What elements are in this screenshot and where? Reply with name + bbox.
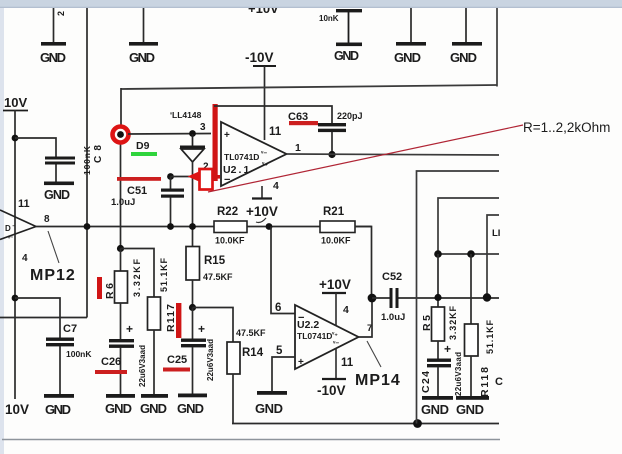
red annotation: vertical bar at U2.1 input [213, 104, 218, 181]
svg-text:TL0741D: TL0741D [224, 152, 259, 162]
capacitor 10nK to ground [336, 9, 362, 12]
ground (C24) [422, 396, 453, 400]
wire: C52 output to right [399, 297, 500, 299]
node R5 top [434, 250, 442, 258]
svg-text:100nK: 100nK [66, 349, 92, 359]
ground (U2.2 pin 5) [257, 391, 287, 395]
node at diode top [189, 130, 196, 137]
svg-text:U2.2: U2.2 [297, 319, 319, 331]
svg-text:1.0uJ: 1.0uJ [381, 312, 405, 323]
ground (top left 1) [41, 42, 66, 46]
wire: node to diode / U2.1 pin 3 [128, 133, 211, 136]
svg-text:11: 11 [269, 126, 282, 138]
node bus / pin6 branch [266, 223, 273, 230]
svg-text:GND: GND [140, 401, 167, 416]
svg-text:C: C [495, 376, 503, 388]
wire: right box middle [438, 198, 499, 254]
wire: node down to R6/R117 branch [120, 143, 122, 249]
red annotation: callout line [208, 125, 523, 192]
svg-text:GND: GND [450, 50, 477, 65]
op-amp U2.1 [221, 122, 287, 186]
node C52 net / R5 [434, 294, 441, 301]
node feedback / right box [413, 419, 422, 428]
window title bar [0, 0, 622, 8]
svg-text:TL0741D: TL0741D [297, 331, 332, 341]
svg-text:47.5KF: 47.5KF [236, 328, 266, 338]
svg-text:22u6V3aad: 22u6V3aad [454, 352, 463, 396]
wire: big box right edge [496, 8, 498, 87]
wire: R21 to output node [355, 227, 372, 299]
resistor R117 [148, 297, 161, 330]
ground (C26) [106, 394, 135, 398]
svg-text:ᵛ−: ᵛ− [332, 340, 339, 347]
svg-text:10nK: 10nK [319, 14, 339, 23]
wire: left corner line [0, 317, 87, 319]
wire: main signal bus MP12 to R21 [36, 226, 372, 228]
svg-text:22u6V3aad: 22u6V3aad [206, 339, 215, 381]
red highlight under C26 [95, 370, 127, 374]
svg-text:ᵛ−: ᵛ− [260, 150, 267, 157]
wire: R117 to ground [153, 330, 155, 394]
svg-text:10V: 10V [4, 95, 27, 110]
-10V supply (U2.2 pin 11) [322, 378, 346, 380]
svg-text:4: 4 [343, 304, 349, 316]
resistor R6 [120, 249, 122, 272]
ground (100nK) [44, 182, 74, 186]
ground (C7) [44, 394, 74, 398]
wire: corner down to highlighted node [120, 88, 122, 127]
diode D9 (LL4148) [192, 134, 194, 146]
wire: vertical into GND (top 5) [465, 8, 467, 42]
svg-text:R14: R14 [242, 347, 264, 359]
node C52 net / inner box [483, 293, 491, 301]
window left border [0, 8, 4, 454]
node at C8 line [84, 223, 91, 230]
resistor R15 [186, 247, 200, 281]
svg-text:4: 4 [22, 253, 28, 264]
svg-text:LI: LI [492, 228, 500, 239]
wire: long horizontal bus [121, 85, 497, 89]
wire: right box inner [487, 215, 499, 298]
svg-text:100nK: 100nK [82, 145, 92, 175]
wire: U2.2 output up to C52 node [359, 298, 373, 337]
svg-text:+: + [444, 342, 451, 356]
ground (10nK) [336, 43, 362, 47]
red highlight under C63 [289, 121, 318, 125]
svg-text:R22: R22 [217, 206, 238, 218]
svg-text:ᵛ₊: ᵛ₊ [331, 331, 338, 338]
wire: pin 11 to -10V [335, 348, 337, 379]
svg-text:GND: GND [105, 401, 132, 416]
wire: long vertical net C8 [86, 8, 88, 318]
red highlight under C25 [163, 368, 190, 372]
svg-text:2: 2 [56, 11, 66, 16]
svg-text:GND: GND [421, 402, 449, 417]
svg-text:+10V: +10V [319, 277, 351, 292]
wire: vertical into GND (top left 2) [143, 8, 145, 42]
svg-text:GND: GND [334, 49, 359, 63]
resistor R5 [432, 307, 445, 341]
svg-text:D9: D9 [136, 140, 150, 152]
svg-text:10V: 10V [5, 402, 29, 417]
svg-text:C52: C52 [382, 271, 402, 283]
node diode line on bus [189, 223, 196, 230]
svg-text:1: 1 [295, 142, 301, 154]
red annotation: arrow at pin 2 [188, 172, 200, 182]
svg-text:ʹLL4148: ʹLL4148 [170, 110, 202, 120]
capacitor C63 [318, 123, 346, 126]
capacitor C26 [120, 303, 122, 340]
wire: U2.1 feedback top [214, 106, 332, 123]
ground (top 5) [452, 42, 482, 46]
capacitor 100nK (upper left) [45, 157, 75, 160]
svg-text:11: 11 [341, 357, 354, 369]
wire: 10V rail vertical [14, 110, 16, 399]
wire: diode anode down [192, 162, 194, 247]
svg-text:C7: C7 [63, 323, 77, 335]
wire: feedback bottom run [232, 423, 499, 425]
wire: right horizontal net [438, 253, 499, 255]
svg-text:10.0KF: 10.0KF [321, 236, 351, 246]
svg-text:MP12: MP12 [30, 267, 76, 284]
node at C52 [368, 294, 377, 303]
svg-text:GND: GND [45, 402, 71, 417]
svg-text:C25: C25 [167, 354, 187, 366]
svg-text:5: 5 [276, 345, 283, 357]
svg-text:MP14: MP14 [355, 372, 401, 389]
bottom separator line [2, 439, 500, 441]
svg-text:U2 . 1: U2 . 1 [223, 164, 250, 176]
svg-text:C26: C26 [101, 356, 121, 368]
wire: bus node down to U2.2 pin 6 [271, 227, 295, 314]
svg-text:GND: GND [40, 50, 66, 65]
ground (top left 2) [129, 42, 158, 46]
svg-text:3.32KF: 3.32KF [132, 259, 142, 298]
highlighted node (red circle annotation) [113, 127, 129, 143]
node R15/R14/C25 [189, 304, 196, 311]
svg-text:22u6V3aad: 22u6V3aad [138, 345, 147, 387]
svg-text:GND: GND [129, 50, 155, 65]
svg-text:-10V: -10V [317, 383, 346, 398]
wire: -10V to U2.1 pin 11 [264, 66, 266, 140]
svg-text:-10V: -10V [245, 50, 274, 65]
svg-text:R15: R15 [204, 255, 226, 267]
wire: R118 to ground [470, 356, 472, 396]
wire: pin 5 to ground [272, 357, 295, 391]
svg-text:+: + [198, 322, 205, 336]
svg-text:GND: GND [44, 188, 70, 202]
svg-text:GND: GND [255, 401, 283, 416]
svg-text:6: 6 [275, 302, 281, 314]
wire: node to R14 [193, 308, 234, 343]
wire: R14 to feedback bottom [232, 374, 234, 424]
wire: U2.1 output [287, 154, 500, 155]
ground (R117) [141, 394, 168, 398]
capacitor C24 [437, 341, 439, 359]
svg-text:1.0uJ: 1.0uJ [111, 197, 135, 208]
+10V supply (U2.1 pin 4) [252, 197, 272, 199]
svg-text:+: + [126, 322, 133, 336]
svg-text:51.1KF: 51.1KF [485, 320, 495, 355]
svg-text:47.5KF: 47.5KF [203, 272, 233, 282]
red annotation: stub to bar [212, 175, 220, 179]
svg-text:GND: GND [177, 401, 204, 416]
node 10V rail to C7 [12, 295, 19, 302]
red highlight bar at R6 [97, 277, 102, 299]
wire: vertical into GND (top 4) [410, 8, 412, 42]
svg-text:51.1KF: 51.1KF [159, 258, 169, 293]
wire: branch to C7 [15, 298, 60, 338]
green highlight under D9 [131, 152, 157, 156]
svg-text:220pJ: 220pJ [337, 111, 363, 121]
svg-text:R21: R21 [323, 206, 345, 218]
node R118 top [467, 250, 475, 258]
wire: branch to R117 [121, 249, 155, 298]
svg-text:ᵛ⁻: ᵛ⁻ [7, 236, 13, 242]
resistor R22 [214, 221, 247, 233]
op-amp U2.2 [295, 305, 359, 369]
resistor R118 [470, 254, 472, 324]
MP14 pointer line [367, 341, 381, 367]
resistor R14 [227, 342, 240, 374]
wire: down to C52 net [437, 254, 439, 307]
node R6/R117 branch [117, 245, 124, 252]
resistor R21 [320, 221, 355, 233]
op-amp MP12 (partial at left edge) [0, 210, 36, 227]
capacitor C25 [192, 308, 194, 340]
node at U2.1 output [328, 151, 335, 158]
red highlight over C51 [117, 177, 161, 181]
svg-text:D ˉ: D ˉ [5, 224, 15, 233]
svg-text:4: 4 [273, 180, 279, 192]
svg-text:GND: GND [394, 50, 421, 65]
svg-text:C24: C24 [420, 371, 432, 393]
svg-text:+: + [298, 357, 304, 368]
ground (R118) [456, 396, 489, 400]
wire: R15 bottom to node [192, 280, 194, 308]
svg-text:R=1..2,2kOhm: R=1..2,2kOhm [523, 120, 610, 135]
ground (C25) [178, 394, 207, 398]
MP12 pointer line [48, 231, 59, 263]
svg-text:+10V: +10V [246, 204, 278, 219]
svg-text:8: 8 [44, 214, 50, 225]
wire: top-left vertical into GND [53, 8, 55, 42]
node on 10V rail [12, 135, 19, 142]
svg-text:10.0KF: 10.0KF [215, 236, 245, 246]
svg-text:3.32KF: 3.32KF [448, 306, 458, 341]
node C51 bottom on bus [167, 223, 174, 230]
wire: branch to C7(100nK) cap [15, 138, 56, 157]
wire: right box outer [417, 171, 500, 424]
svg-text:+: + [224, 130, 230, 141]
ground (top 4) [396, 42, 426, 46]
svg-text:GND: GND [456, 402, 484, 417]
red highlight bar at R117 [176, 303, 181, 338]
svg-text:C51: C51 [127, 185, 147, 197]
svg-text:3: 3 [200, 122, 206, 133]
svg-text:ᵛ₊: ᵛ₊ [261, 161, 268, 168]
red annotation: suggested resistor box [200, 169, 213, 190]
wire: pin 4 to +10V [261, 186, 263, 198]
svg-text:11: 11 [18, 198, 30, 210]
